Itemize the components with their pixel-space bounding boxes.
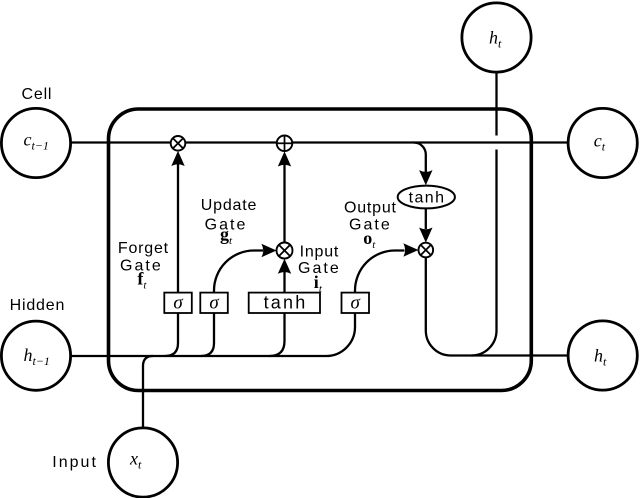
svg-text:Hidden: Hidden — [10, 297, 66, 314]
svg-text:tanh: tanh — [409, 190, 446, 207]
svg-text:Input: Input — [52, 454, 98, 471]
svg-text:σ: σ — [173, 292, 183, 313]
svg-text:Gate: Gate — [298, 260, 341, 277]
svg-text:tanh: tanh — [264, 293, 308, 313]
svg-text:Input: Input — [300, 244, 340, 261]
svg-text:Cell: Cell — [22, 86, 53, 103]
svg-text:Update: Update — [201, 197, 257, 214]
svg-text:σ: σ — [351, 292, 361, 313]
svg-text:σ: σ — [209, 292, 219, 313]
svg-text:Forget: Forget — [118, 240, 169, 257]
svg-text:Output: Output — [344, 199, 397, 216]
